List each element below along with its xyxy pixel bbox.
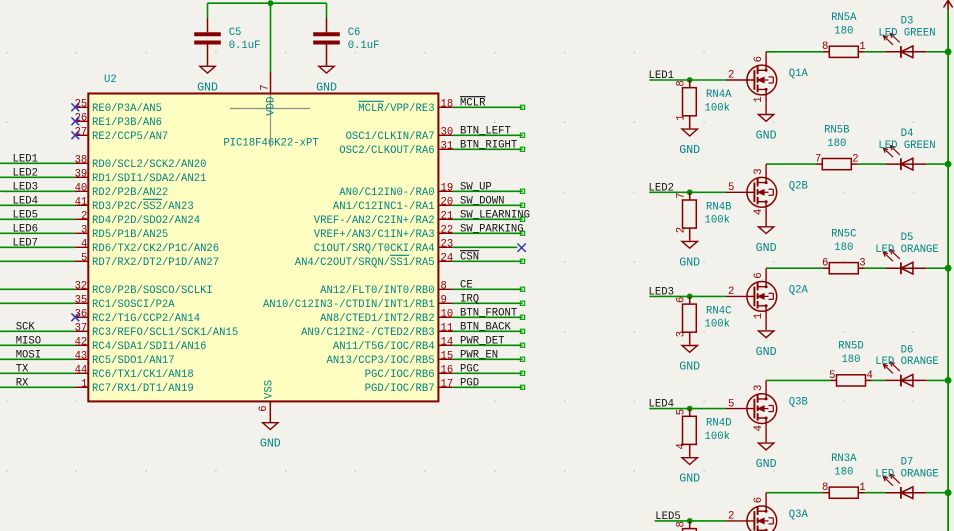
svg-text:SW_UP: SW_UP: [460, 181, 492, 193]
svg-text:GND: GND: [260, 438, 281, 451]
svg-text:5: 5: [675, 409, 687, 415]
svg-text:RD0/SCL2/SCK2/AN20: RD0/SCL2/SCK2/AN20: [92, 159, 206, 171]
svg-text:C6: C6: [348, 27, 361, 39]
svg-text:AN8/CTED1/INT2/RB2: AN8/CTED1/INT2/RB2: [320, 313, 434, 325]
svg-text:RC4/SDA1/SDI1/AN16: RC4/SDA1/SDI1/AN16: [92, 341, 206, 353]
svg-text:RN5A: RN5A: [831, 12, 857, 24]
svg-text:16: 16: [441, 364, 454, 376]
svg-text:RD3/P2C/SS2/AN23: RD3/P2C/SS2/AN23: [92, 201, 194, 213]
svg-text:RD1/SDI1/SDA2/AN21: RD1/SDI1/SDA2/AN21: [92, 173, 206, 185]
svg-text:RX: RX: [16, 377, 29, 389]
svg-text:LED1: LED1: [649, 70, 674, 82]
svg-text:RC0/P2B/SOSCO/SCLKI: RC0/P2B/SOSCO/SCLKI: [92, 285, 213, 297]
svg-text:D4: D4: [901, 128, 914, 140]
svg-text:D7: D7: [901, 457, 914, 469]
svg-text:RC3/REFO/SCL1/SCK1/AN15: RC3/REFO/SCL1/SCK1/AN15: [92, 327, 238, 339]
svg-text:LED2: LED2: [649, 182, 674, 194]
svg-text:18: 18: [441, 98, 454, 110]
svg-text:VDD: VDD: [266, 97, 278, 116]
svg-text:RC5/SDO1/AN17: RC5/SDO1/AN17: [92, 355, 175, 367]
svg-text:7: 7: [260, 84, 272, 90]
svg-text:LED6: LED6: [13, 223, 38, 235]
svg-text:LED GREEN: LED GREEN: [878, 28, 935, 40]
svg-text:RD4/P2D/SDO2/AN24: RD4/P2D/SDO2/AN24: [92, 215, 200, 227]
svg-text:42: 42: [75, 336, 88, 348]
svg-text:AN4/C2OUT/SRQN/SS1/RA5: AN4/C2OUT/SRQN/SS1/RA5: [295, 257, 435, 269]
svg-text:AN1/C12INC1-/RA1: AN1/C12INC1-/RA1: [333, 201, 435, 213]
svg-text:RD6/TX2/CK2/P1C/AN26: RD6/TX2/CK2/P1C/AN26: [92, 243, 219, 255]
svg-text:RE1/P3B/AN6: RE1/P3B/AN6: [92, 117, 162, 129]
svg-text:24: 24: [441, 252, 454, 264]
svg-text:IRQ: IRQ: [460, 293, 479, 305]
svg-text:AN12/FLT0/INT0/RB0: AN12/FLT0/INT0/RB0: [320, 285, 434, 297]
svg-text:RD5/P1B/AN25: RD5/P1B/AN25: [92, 229, 168, 241]
svg-text:GND: GND: [756, 242, 777, 255]
svg-text:U2: U2: [104, 74, 117, 86]
svg-text:100k: 100k: [705, 102, 730, 114]
svg-text:RN5C: RN5C: [831, 229, 856, 241]
svg-text:RC2/T1G/CCP2/AN14: RC2/T1G/CCP2/AN14: [92, 313, 200, 325]
svg-text:RN3A: RN3A: [831, 453, 857, 465]
svg-text:21: 21: [441, 210, 454, 222]
svg-text:LED1: LED1: [13, 153, 38, 165]
svg-text:RC1/SOSCI/P2A: RC1/SOSCI/P2A: [92, 299, 175, 311]
svg-text:4: 4: [675, 443, 687, 449]
svg-text:AN9/C12IN2-/CTED2/RB3: AN9/C12IN2-/CTED2/RB3: [301, 327, 435, 339]
svg-text:SW_LEARNING: SW_LEARNING: [460, 209, 530, 221]
svg-text:LED2: LED2: [13, 167, 38, 179]
svg-text:GND: GND: [756, 130, 777, 143]
svg-text:PGC: PGC: [460, 363, 479, 375]
svg-text:VSS: VSS: [263, 380, 275, 399]
svg-text:8: 8: [822, 482, 828, 494]
svg-text:11: 11: [441, 322, 454, 334]
svg-text:1: 1: [675, 115, 687, 121]
svg-text:LED ORANGE: LED ORANGE: [875, 356, 939, 368]
svg-text:100k: 100k: [705, 215, 730, 227]
svg-text:44: 44: [75, 364, 88, 376]
svg-text:VREF-/AN2/C2IN+/RA2: VREF-/AN2/C2IN+/RA2: [314, 215, 435, 227]
svg-text:1: 1: [859, 482, 865, 494]
svg-text:D3: D3: [901, 16, 914, 28]
svg-text:43: 43: [75, 350, 88, 362]
svg-text:180: 180: [834, 26, 853, 38]
svg-text:5: 5: [81, 252, 87, 264]
svg-text:100k: 100k: [705, 319, 730, 331]
svg-text:180: 180: [841, 354, 860, 366]
svg-text:MCLR/VPP/RE3: MCLR/VPP/RE3: [358, 103, 434, 115]
svg-text:1: 1: [81, 378, 87, 390]
svg-text:PWR_EN: PWR_EN: [460, 349, 498, 361]
svg-text:LED3: LED3: [649, 286, 674, 298]
svg-text:3: 3: [753, 385, 765, 391]
svg-text:3: 3: [753, 168, 765, 174]
svg-text:VREF+/AN3/C1IN+/RA3: VREF+/AN3/C1IN+/RA3: [314, 229, 435, 241]
svg-text:SW_DOWN: SW_DOWN: [460, 195, 505, 207]
svg-text:2: 2: [675, 227, 687, 233]
svg-text:0.1uF: 0.1uF: [348, 40, 380, 52]
svg-text:C1OUT/SRQ/T0CKI/RA4: C1OUT/SRQ/T0CKI/RA4: [314, 243, 435, 255]
svg-text:14: 14: [441, 336, 454, 348]
svg-text:15: 15: [441, 350, 454, 362]
svg-text:2: 2: [81, 210, 87, 222]
svg-text:MISO: MISO: [16, 335, 41, 347]
svg-text:RC7/RX1/DT1/AN19: RC7/RX1/DT1/AN19: [92, 383, 194, 395]
svg-text:23: 23: [441, 238, 454, 250]
svg-text:AN13/CCP3/IOC/RB5: AN13/CCP3/IOC/RB5: [327, 355, 435, 367]
svg-text:GND: GND: [679, 256, 700, 269]
svg-text:37: 37: [75, 322, 88, 334]
svg-text:31: 31: [441, 140, 454, 152]
svg-text:180: 180: [834, 467, 853, 479]
svg-text:GND: GND: [756, 346, 777, 359]
svg-text:Q3A: Q3A: [789, 509, 809, 521]
svg-text:LED3: LED3: [13, 181, 38, 193]
svg-text:LED4: LED4: [649, 399, 674, 411]
svg-text:180: 180: [827, 138, 846, 150]
svg-text:22: 22: [441, 224, 454, 236]
svg-text:6: 6: [753, 272, 765, 278]
svg-text:10: 10: [441, 308, 454, 320]
svg-text:AN10/C12IN3-/CTDIN/INT1/RB1: AN10/C12IN3-/CTDIN/INT1/RB1: [263, 299, 435, 311]
svg-text:LED ORANGE: LED ORANGE: [875, 468, 939, 480]
svg-text:4: 4: [81, 238, 87, 250]
svg-text:LED5: LED5: [13, 209, 38, 221]
svg-text:GND: GND: [756, 458, 777, 471]
svg-text:9: 9: [441, 294, 447, 306]
svg-text:8: 8: [675, 521, 687, 527]
svg-text:LED7: LED7: [13, 237, 38, 249]
svg-text:0.1uF: 0.1uF: [229, 40, 261, 52]
svg-text:PWR_DET: PWR_DET: [460, 335, 505, 347]
svg-text:1: 1: [753, 96, 765, 102]
svg-text:RE2/CCP5/AN7: RE2/CCP5/AN7: [92, 131, 168, 143]
svg-text:AN0/C12IN0-/RA0: AN0/C12IN0-/RA0: [339, 187, 434, 199]
svg-text:Q2B: Q2B: [789, 180, 808, 192]
svg-text:2: 2: [852, 154, 858, 166]
svg-text:C5: C5: [229, 27, 242, 39]
svg-text:RN4B: RN4B: [706, 201, 731, 213]
svg-text:1: 1: [859, 41, 865, 53]
svg-text:Q1A: Q1A: [789, 68, 809, 80]
svg-text:CSN: CSN: [460, 251, 479, 263]
svg-text:1: 1: [753, 313, 765, 319]
svg-text:OSC2/CLKOUT/RA6: OSC2/CLKOUT/RA6: [339, 145, 434, 157]
svg-text:RD7/RX2/DT2/P1D/AN27: RD7/RX2/DT2/P1D/AN27: [92, 257, 219, 269]
svg-text:AN11/T5G/IOC/RB4: AN11/T5G/IOC/RB4: [333, 341, 435, 353]
svg-text:MCLR: MCLR: [460, 97, 486, 109]
svg-text:Q3B: Q3B: [789, 397, 808, 409]
svg-text:GND: GND: [197, 81, 218, 94]
svg-text:GND: GND: [679, 144, 700, 157]
svg-text:PGD: PGD: [460, 377, 479, 389]
svg-text:BTN_LEFT: BTN_LEFT: [460, 125, 511, 137]
svg-text:40: 40: [75, 182, 88, 194]
svg-text:TX: TX: [16, 363, 29, 375]
svg-text:6: 6: [675, 297, 687, 303]
svg-text:4: 4: [753, 425, 765, 431]
svg-text:LED4: LED4: [13, 195, 38, 207]
svg-text:8: 8: [675, 80, 687, 86]
svg-text:7: 7: [675, 193, 687, 199]
svg-text:PGC/IOC/RB6: PGC/IOC/RB6: [365, 369, 435, 381]
svg-text:RN5D: RN5D: [838, 341, 863, 353]
svg-text:RN4A: RN4A: [706, 89, 732, 101]
svg-text:8: 8: [441, 280, 447, 292]
svg-text:RC6/TX1/CK1/AN18: RC6/TX1/CK1/AN18: [92, 369, 194, 381]
svg-text:30: 30: [441, 126, 454, 138]
svg-text:19: 19: [441, 182, 454, 194]
svg-text:RN5B: RN5B: [824, 124, 849, 136]
svg-text:20: 20: [441, 196, 454, 208]
svg-text:BTN_FRONT: BTN_FRONT: [460, 307, 517, 319]
svg-text:RD2/P2B/AN22: RD2/P2B/AN22: [92, 187, 168, 199]
svg-text:41: 41: [75, 196, 88, 208]
svg-text:100k: 100k: [705, 431, 730, 443]
svg-text:8: 8: [822, 41, 828, 53]
svg-text:OSC1/CLKIN/RA7: OSC1/CLKIN/RA7: [346, 131, 435, 143]
svg-text:5: 5: [829, 370, 835, 382]
svg-text:4: 4: [753, 209, 765, 215]
svg-text:6: 6: [258, 405, 270, 411]
svg-text:7: 7: [815, 154, 821, 166]
svg-text:LED GREEN: LED GREEN: [878, 140, 935, 152]
svg-text:17: 17: [441, 378, 454, 390]
svg-text:32: 32: [75, 280, 88, 292]
svg-text:GND: GND: [316, 81, 337, 94]
svg-text:RN4C: RN4C: [706, 306, 731, 318]
svg-text:GND: GND: [679, 473, 700, 486]
svg-text:LED5: LED5: [655, 511, 680, 523]
svg-text:BTN_RIGHT: BTN_RIGHT: [460, 139, 517, 151]
svg-text:6: 6: [753, 56, 765, 62]
svg-text:180: 180: [834, 242, 853, 254]
svg-text:RN4D: RN4D: [706, 418, 731, 430]
svg-text:35: 35: [75, 294, 88, 306]
svg-text:39: 39: [75, 168, 88, 180]
svg-text:3: 3: [675, 331, 687, 337]
svg-text:SW_PARKING: SW_PARKING: [460, 223, 524, 235]
svg-text:SCK: SCK: [16, 321, 36, 333]
svg-text:D6: D6: [901, 344, 914, 356]
svg-text:3: 3: [81, 224, 87, 236]
svg-text:6: 6: [753, 497, 765, 503]
svg-text:6: 6: [822, 258, 828, 270]
svg-text:4: 4: [867, 370, 873, 382]
svg-text:MOSI: MOSI: [16, 349, 41, 361]
svg-text:BTN_BACK: BTN_BACK: [460, 321, 512, 333]
svg-text:PGD/IOC/RB7: PGD/IOC/RB7: [365, 383, 435, 395]
svg-text:RE0/P3A/AN5: RE0/P3A/AN5: [92, 103, 162, 115]
svg-text:D5: D5: [901, 232, 914, 244]
svg-text:GND: GND: [679, 361, 700, 374]
svg-text:CE: CE: [460, 279, 473, 291]
svg-text:3: 3: [859, 258, 865, 270]
svg-text:Q2A: Q2A: [789, 284, 809, 296]
svg-text:LED ORANGE: LED ORANGE: [875, 244, 939, 256]
svg-text:38: 38: [75, 154, 88, 166]
